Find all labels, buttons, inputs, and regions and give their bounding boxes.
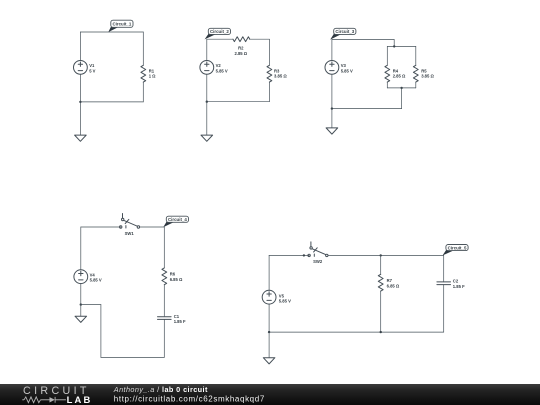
resistor R4	[385, 46, 390, 88]
svg-text:2.85 Ω: 2.85 Ω	[234, 51, 247, 56]
svg-text:V5: V5	[279, 293, 285, 298]
wire bottom rail circuit 5	[269, 331, 444, 333]
junction node at R7 bottom	[380, 331, 382, 333]
junction node circuit 3	[331, 107, 333, 109]
svg-text:V2: V2	[216, 63, 222, 68]
wire down segment circuit 4	[100, 305, 102, 358]
wire V2 top lead	[206, 39, 208, 60]
wire V3 top lead	[331, 40, 333, 61]
annotation label Circuit_4	[163, 216, 188, 227]
wire bottom rail circuit 1	[80, 101, 143, 103]
wire V3 bottom lead	[331, 74, 333, 108]
wire top rail right circuit 2	[250, 38, 270, 40]
wire top rail right circuit 5	[328, 254, 444, 256]
wire V5 bottom lead	[268, 304, 270, 332]
svg-text:5 V: 5 V	[89, 68, 95, 73]
CircuitLab logo wire-resistor-diode glyph	[22, 397, 66, 403]
svg-text:V1: V1	[89, 63, 95, 68]
ground circuit 5	[263, 332, 275, 364]
junction node before SW2	[303, 254, 305, 256]
svg-text:SW2: SW2	[313, 259, 323, 264]
junction node at R7 top	[380, 254, 382, 256]
annotation label Circuit_3	[330, 28, 356, 39]
voltage source V5	[262, 290, 276, 304]
wire V4 top lead	[80, 227, 82, 270]
svg-text:Circuit_4: Circuit_4	[168, 217, 187, 222]
wire V1 bottom lead	[79, 74, 81, 102]
resistor R6	[162, 227, 167, 316]
svg-text:V3: V3	[341, 63, 347, 68]
svg-text:R6: R6	[170, 271, 176, 276]
wire from parallel pair down	[401, 88, 403, 109]
svg-text:C2: C2	[453, 278, 459, 283]
switch SW2	[308, 242, 328, 257]
resistor R5	[413, 46, 418, 88]
wire top rail circuit 3	[332, 39, 394, 41]
footer bar	[0, 384, 540, 405]
svg-text:3.85 Ω: 3.85 Ω	[274, 74, 287, 79]
svg-text:R2: R2	[238, 45, 244, 50]
svg-text:R5: R5	[421, 68, 427, 73]
capacitor C1	[158, 317, 172, 358]
voltage source V2	[200, 61, 214, 75]
resistor R1	[141, 32, 146, 102]
svg-text:R1: R1	[149, 68, 155, 73]
svg-text:1.85 F: 1.85 F	[174, 319, 186, 324]
svg-text:Circuit_2: Circuit_2	[210, 29, 229, 34]
wire top rail left circuit 5	[269, 254, 309, 256]
wire parallel bottom bar	[387, 87, 416, 89]
wire top rail circuit 1	[80, 31, 143, 33]
wire V2 bottom lead	[206, 74, 208, 102]
svg-text:2.85 Ω: 2.85 Ω	[393, 74, 406, 79]
resistor R2	[233, 37, 250, 42]
annotation label Circuit_5	[443, 245, 469, 256]
wire top rail right circuit 4	[140, 226, 165, 228]
svg-text:5.85 V: 5.85 V	[90, 278, 102, 283]
ground circuit 3	[326, 109, 338, 135]
svg-text:5.85 V: 5.85 V	[341, 68, 353, 73]
svg-text:5.85 V: 5.85 V	[279, 299, 291, 304]
svg-text:Circuit_5: Circuit_5	[448, 245, 467, 250]
wire bottom rail circuit 3	[332, 108, 402, 110]
voltage source V1	[74, 61, 88, 75]
junction node circuit 1	[79, 101, 81, 103]
svg-text:Anthony_.a / lab 0 circuit: Anthony_.a / lab 0 circuit	[113, 385, 208, 394]
voltage source V4	[74, 270, 88, 284]
svg-text:http://circuitlab.com/c62smkha: http://circuitlab.com/c62smkhaqkqd7	[114, 395, 265, 404]
wire parallel top bar	[387, 45, 416, 47]
svg-text:SW1: SW1	[125, 231, 135, 236]
wire top rail left circuit 4	[81, 226, 121, 228]
ground circuit 1	[75, 102, 87, 141]
svg-text:R7: R7	[387, 278, 393, 283]
capacitor C2	[437, 255, 451, 332]
wire V4 bottom lead	[80, 284, 82, 305]
svg-text:LAB: LAB	[67, 394, 93, 405]
junction node on parallel top bar	[393, 45, 395, 47]
annotation label Circuit_2	[205, 28, 231, 39]
svg-text:6.85 Ω: 6.85 Ω	[387, 284, 400, 289]
junction node on parallel bottom bar	[400, 87, 402, 89]
ground circuit 2	[201, 102, 213, 142]
wire V5 top lead	[268, 255, 270, 290]
svg-text:1 Ω: 1 Ω	[149, 74, 156, 79]
svg-text:5.85 V: 5.85 V	[216, 68, 228, 73]
svg-text:R3: R3	[274, 68, 280, 73]
wire from junction to the right circuit 4	[81, 304, 101, 306]
svg-text:C1: C1	[174, 314, 180, 319]
wire bottom rail circuit 4	[101, 356, 164, 358]
resistor R3	[267, 39, 272, 101]
wire top rail left circuit 2	[207, 38, 233, 40]
wire feed down to parallel pair	[393, 40, 395, 47]
annotation label Circuit_1	[108, 20, 133, 32]
svg-text:V4: V4	[90, 272, 96, 277]
junction node at V5 bottom	[268, 331, 270, 333]
voltage source V3	[325, 61, 339, 75]
junction node circuit 2	[206, 101, 208, 103]
svg-text:R4: R4	[393, 68, 399, 73]
svg-text:1.85 F: 1.85 F	[453, 284, 465, 289]
ground circuit 4	[75, 305, 87, 323]
svg-text:Circuit_1: Circuit_1	[113, 22, 132, 27]
svg-text:3.85 Ω: 3.85 Ω	[421, 74, 434, 79]
resistor R7	[378, 255, 383, 332]
junction node circuit 4	[80, 303, 82, 305]
svg-text:Circuit_3: Circuit_3	[335, 29, 354, 34]
switch SW1	[120, 214, 140, 229]
wire bottom rail circuit 2	[207, 101, 270, 103]
svg-text:6.85 Ω: 6.85 Ω	[170, 277, 183, 282]
wire V1 top lead	[79, 32, 81, 61]
